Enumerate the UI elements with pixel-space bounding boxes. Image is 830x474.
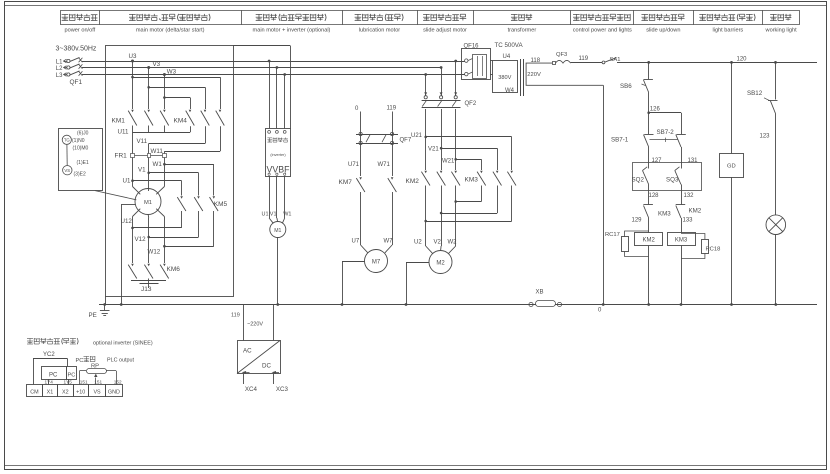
svg-text:(1)N0: (1)N0 [72,138,85,144]
wire 119 to SA1 [571,62,602,64]
connector XB [529,290,562,307]
svg-text:119: 119 [579,56,589,62]
svg-text:KM1: KM1 [112,118,126,125]
svg-text:0: 0 [355,106,359,112]
svg-text:1Y4: 1Y4 [45,380,54,385]
svg-text:(inverter): (inverter) [270,153,286,157]
svg-text:U1: U1 [262,212,269,218]
svg-text:0: 0 [598,308,602,314]
wire SB12 to lamp [775,114,777,216]
wire KM3 out2 to V2 [440,186,498,215]
wire control rail 120 [617,62,817,64]
wire PE 0 rail [99,304,817,306]
wire 0 from transformer [598,85,605,313]
svg-text:SQ3: SQ3 [666,177,679,184]
wire V12 down [148,218,150,263]
svg-text:U12: U12 [121,218,133,225]
svg-text:(3)E2: (3)E2 [74,171,86,177]
wire KM5 pole1 to U12 [131,211,181,229]
wire bus L2 phase [82,67,441,69]
wire branch GD [730,61,733,154]
work light lamp EL [766,215,786,235]
svg-text:KM6: KM6 [167,266,181,273]
svg-text:123: 123 [760,133,771,139]
svg-text:KM2: KM2 [406,178,420,185]
wire PC to X2 [68,379,70,385]
wires KM2 outputs to motor M2 [426,186,456,254]
wire branch SB12 [774,61,777,100]
svg-text:slide up/down: slide up/down [646,28,680,34]
circuit breaker QF16 [462,44,491,80]
push button SB6 (NC) [620,80,653,93]
wire QF2 feed pole1 [424,73,427,95]
svg-text:QF7: QF7 [400,138,412,144]
node V3 [147,61,160,69]
wire W12 down [164,217,166,264]
node U11 [118,126,191,135]
svg-text:120: 120 [737,56,748,62]
wires KM7 to motor M7 [361,192,393,253]
wire branch U3 to KM4 pole3 [131,76,220,109]
wire ACDC to XC3 [273,374,275,385]
svg-text:118: 118 [531,58,541,64]
wire lube line 0 [360,112,362,177]
wire KM3 out1 to W2 [454,186,481,203]
svg-text:optional inverter (SINEE): optional inverter (SINEE) [93,341,153,347]
wire KM3 out3 to U2 [424,186,511,223]
interlock contact KM2 (NC) [676,205,702,219]
relay contact PC [42,367,77,380]
wire bus L1 phase [82,61,465,63]
snubber RC17 [605,231,649,257]
svg-text:W1: W1 [283,212,291,218]
svg-text:KM4: KM4 [174,118,188,125]
svg-text:U11: U11 [118,129,129,136]
svg-text:AC: AC [243,348,252,355]
svg-text:119: 119 [387,105,397,111]
svg-text:L2: L2 [56,66,63,72]
svg-text:V1: V1 [270,212,277,218]
wire SB6 to node 126 [648,93,650,135]
wire U1 branch to KM5 pole1 [131,179,181,195]
wire branch 126 to SB7-2 [649,113,682,135]
wire M7 earth to PE rail [341,261,365,306]
wire KM3nc to KM2 coil [648,218,650,233]
limit switch SQ3 [666,167,681,185]
svg-text:XB: XB [536,290,544,296]
svg-text:KM5: KM5 [214,201,228,208]
wire SQ2 down [648,185,650,205]
svg-text:131: 131 [688,158,699,164]
header cell: lubrication motor [355,14,403,34]
wire W1 branch to KM5 pole3 [163,163,214,196]
svg-text:slide adjust motor: slide adjust motor [423,28,467,34]
ground PE [89,303,110,319]
motor M1 [133,187,165,219]
svg-text:X1: X1 [47,390,54,396]
optional inverter title [27,338,153,347]
svg-text:lubrication motor: lubrication motor [359,28,400,34]
header cell: main motor + inverter (optional) [253,14,331,34]
contactor KM4 main contacts [174,110,225,126]
svg-text:PLC output: PLC output [107,358,134,364]
svg-text:W11: W11 [151,148,164,155]
contactor KM7 contacts [339,177,397,192]
svg-text:RC17: RC17 [605,232,620,238]
svg-text:CM: CM [30,390,39,396]
svg-text:220V: 220V [527,72,541,78]
wire SQ3 down [681,185,683,205]
svg-text:M2: M2 [436,261,445,267]
svg-text:V12: V12 [135,236,147,243]
star point bar J13 [131,279,166,294]
transformer TC 500VA [490,42,603,96]
wire V1 branch to KM5 pole2 [147,172,198,196]
svg-text:U21: U21 [411,133,423,139]
wire KM2nc to KM3 coil [681,218,683,233]
svg-text:RC18: RC18 [706,246,721,252]
wire QF2 feed pole2 [440,66,443,95]
wire 119 to ACDC [243,305,245,341]
speed feedback box TG VS [59,129,103,191]
svg-text:QF3: QF3 [556,52,567,58]
svg-text:transformer: transformer [508,28,537,34]
wire M1 earth to PE rail [120,204,136,306]
header cell: light barriers [699,14,755,34]
svg-text:M7: M7 [372,260,381,266]
svg-text:KM3: KM3 [465,177,479,184]
interlock contact KM3 (NC) [643,205,671,219]
svg-text:QF2: QF2 [465,101,477,107]
circuit breaker QF1 [56,57,83,86]
svg-text:X2: X2 [62,390,69,396]
motor M2 slide adjust [429,251,452,274]
svg-text:SB7-2: SB7-2 [657,129,675,136]
wire branch W3 to KM4 pole1 [163,96,190,109]
thermal overload relay FR1 [115,153,167,160]
svg-text:L3: L3 [56,73,63,79]
wire inverter feed V [276,66,279,129]
contactor KM1 main contacts [112,110,169,133]
svg-text:(10)M0: (10)M0 [73,146,89,152]
wire KM3 coil to 0 rail [680,245,683,306]
wire GD to 0 rail [730,177,733,306]
wire bus L3 phase [82,74,465,76]
svg-text:U4: U4 [503,54,511,60]
header cell: main motor (delta/star start) [129,14,210,34]
wires QF2 outputs down [426,109,456,170]
svg-text:152: 152 [114,380,122,385]
motor M1 (inverter-driven) [270,222,286,238]
coil KM3 [668,233,696,246]
header table row [60,10,799,25]
svg-text:TC 500VA: TC 500VA [495,42,524,49]
wire crossover W21 to KM3 [454,158,481,170]
svg-text:working light: working light [765,28,798,34]
svg-text:129: 129 [632,218,643,224]
svg-text:(6)J0: (6)J0 [77,130,89,136]
svg-text:W3: W3 [167,68,177,75]
wire phase U down to KM1 [132,61,134,109]
wire lamp to 0 rail [774,235,777,306]
node U3 [129,53,137,62]
svg-text:M1: M1 [274,228,281,234]
circuit breaker QF3 [553,52,571,65]
svg-text:VVBF: VVBF [267,164,291,174]
switch SA1 [602,57,620,64]
contactor KM3 contacts (slide down) [465,171,517,186]
wire KM5 pole3 to W12 [163,211,214,248]
header cell: power on/off [62,14,98,34]
svg-text:KM7: KM7 [339,179,353,186]
section enclosure box main motor [106,46,291,305]
svg-text:KM3: KM3 [675,238,688,244]
svg-text:132: 132 [684,193,695,199]
snubber RC18 [681,234,720,259]
svg-text:U7: U7 [352,239,360,245]
svg-text:119: 119 [231,313,240,319]
limit switch SQ2 [632,167,649,185]
wire KM5 pole2 to V12 [147,211,198,238]
motor M7 lubrication [365,250,388,273]
contactor KM2 contacts (slide up) [406,171,461,186]
wire phase W down to KM1 [164,75,166,110]
svg-text:GND: GND [108,390,120,396]
contactor KM5 contacts [177,196,227,211]
svg-text:151: 151 [80,380,88,385]
svg-text:W1: W1 [153,161,163,168]
wire U12 down [132,217,134,264]
svg-text:SQ2: SQ2 [632,177,645,184]
svg-text:main motor + inverter (optiona: main motor + inverter (optional) [253,28,331,34]
svg-text:PC: PC [68,373,76,379]
wire crossover U21 to KM3 [424,136,511,170]
limit switch box SQ2 SQ3 [633,163,702,191]
light barrier unit GD [720,154,744,178]
push button SB7-2 (NO) [657,129,686,147]
push button SB12 (NC) [747,90,778,114]
svg-text:V1: V1 [138,167,146,174]
node U1 V1 W1 inverter motor [262,212,292,218]
header cell: working light [765,14,798,34]
svg-text:~220V: ~220V [247,322,263,328]
svg-text:SB7-1: SB7-1 [611,137,629,144]
svg-text:+10: +10 [76,390,85,396]
wires inverter to motor M1v [269,176,285,223]
svg-text:U2: U2 [414,240,422,246]
header cell: slide up/down [641,14,684,34]
terminal labels row [45,380,123,385]
header cell: transformer [508,14,537,34]
svg-text:151: 151 [94,380,102,385]
svg-text:126: 126 [650,106,661,112]
svg-text:W7: W7 [384,239,394,245]
svg-text:128: 128 [649,193,660,199]
wire branch V3 to KM4 pole2 [147,86,205,109]
svg-text:3~380v.50Hz: 3~380v.50Hz [56,46,97,53]
potentiometer RP [80,369,117,385]
label PC output [76,356,135,369]
wire branch SB6 [647,61,650,79]
circuit breaker QF7 [356,132,412,144]
svg-text:KM2: KM2 [643,238,656,244]
wire inverter feed W [283,73,286,129]
header cell: slide adjust motor [423,14,467,34]
wire tacho feedback diagonal to M1 [95,191,136,200]
push button SB7-1 (NO) [611,135,654,148]
svg-text:VS: VS [64,168,70,173]
node W11 [151,126,221,155]
wires KM1 outputs down through FR1 [133,133,165,189]
svg-text:QF1: QF1 [70,79,83,86]
header cell: control power and lights [573,14,632,34]
wire M2 earth to PE rail [405,262,429,306]
svg-text:power on/off: power on/off [65,28,96,34]
svg-text:V3: V3 [153,61,161,68]
svg-text:U71: U71 [348,162,360,168]
wire YC2 bracket [33,358,68,384]
svg-text:J13: J13 [141,286,152,293]
node V11 [137,126,206,145]
mechanical link SB7 [650,138,678,142]
wire KM2 coil to 0 rail [647,245,650,306]
contactor KM6 star contacts [128,264,180,279]
terminal strip CM X1 X2 +10 VS GND [27,385,123,397]
svg-text:SB6: SB6 [620,83,632,90]
svg-text:TG: TG [64,138,71,143]
svg-text:U1: U1 [123,177,131,184]
inverter unit VVBF [266,129,291,177]
wire ACDC to XC4 [243,374,245,385]
svg-text:control power and lights: control power and lights [573,28,632,34]
svg-text:W71: W71 [378,162,391,168]
svg-text:U3: U3 [129,53,137,60]
svg-text:380V: 380V [498,75,511,81]
svg-text:PE: PE [89,312,97,319]
svg-text:W4: W4 [505,88,515,94]
svg-text:M1: M1 [144,200,152,206]
svg-text:DC: DC [262,363,271,370]
wire phase V down to KM1 [148,68,150,110]
svg-text:V21: V21 [428,146,439,152]
wire QF2 feed pole3 [454,60,457,96]
svg-text:W12: W12 [148,249,161,256]
node 126 [647,106,660,114]
svg-text:W21: W21 [442,158,455,164]
svg-text:W2: W2 [448,240,458,246]
svg-text:VS: VS [93,390,101,396]
svg-text:1Y5: 1Y5 [64,380,73,385]
svg-text:KM2: KM2 [689,207,702,214]
wire SB7-2 to SQ3 [681,147,683,169]
wire lube line 119 [392,112,394,177]
svg-text:GD: GD [727,164,736,170]
coil KM2 [635,233,663,246]
svg-text:SB12: SB12 [747,90,763,97]
wire crossover V21 to KM3 [440,147,498,170]
svg-text:main motor (delta/star start): main motor (delta/star start) [136,28,205,34]
wire M1v to PE rail [276,238,279,306]
svg-text:KM3: KM3 [658,210,671,217]
converter AC/DC [237,341,281,374]
svg-text:127: 127 [652,158,663,164]
wire inverter feed U [268,60,271,129]
node W3 [163,68,177,76]
svg-text:133: 133 [683,218,694,224]
svg-text:FR1: FR1 [115,153,128,160]
svg-text:light barriers: light barriers [712,28,743,34]
svg-text:XC3: XC3 [276,386,289,393]
svg-text:L1: L1 [56,59,63,65]
svg-text:V2: V2 [434,240,442,246]
svg-text:PC: PC [49,373,58,379]
svg-text:V11: V11 [137,138,148,145]
wire PC to X1 [48,379,50,385]
svg-text:PC: PC [76,358,84,364]
svg-text:YC2: YC2 [43,352,55,358]
circuit breaker QF2 [422,92,477,107]
wire SB7-1 to SQ2 [648,147,650,169]
wire 220V to ACDC [273,305,275,341]
svg-text:(1)E1: (1)E1 [77,160,89,166]
svg-text:XC4: XC4 [245,386,258,393]
